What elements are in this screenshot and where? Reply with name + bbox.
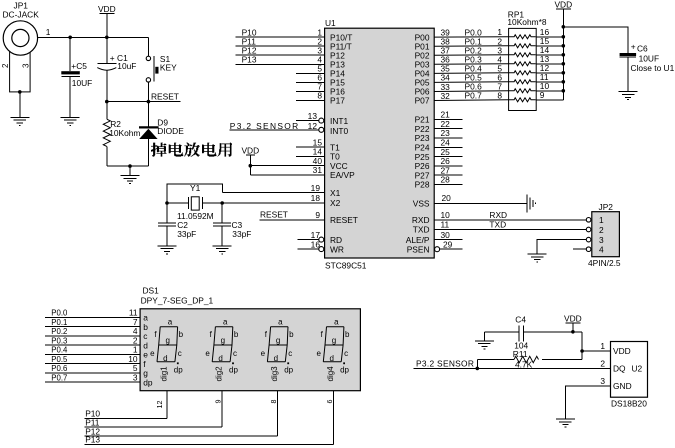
pin 24 P24 of U1 bbox=[415, 138, 463, 153]
svg-text:30: 30 bbox=[441, 230, 451, 240]
svg-text:Y1: Y1 bbox=[190, 183, 201, 193]
svg-text:16: 16 bbox=[311, 239, 321, 249]
svg-text:8: 8 bbox=[497, 90, 502, 100]
svg-text:C6: C6 bbox=[637, 44, 648, 54]
svg-text:WR: WR bbox=[330, 244, 344, 254]
crystal Y1 11.0592M bbox=[167, 183, 222, 221]
pin 21 P21 of U1 bbox=[415, 110, 463, 125]
RP1 right pin 12 wire bbox=[536, 63, 563, 73]
svg-text:U1: U1 bbox=[325, 18, 336, 28]
svg-text:c: c bbox=[344, 349, 348, 358]
pin 25 P25 of U1 bbox=[415, 147, 463, 162]
svg-text:P0.7: P0.7 bbox=[51, 373, 67, 382]
svg-text:VDD: VDD bbox=[613, 346, 631, 356]
power ground at VSS (rotated) bbox=[527, 194, 535, 212]
svg-text:4: 4 bbox=[599, 245, 604, 255]
ground under C5 bbox=[61, 117, 80, 125]
display pin 1 segment e, net P0.4 bbox=[45, 345, 148, 360]
node P3.2_SENSOR bbox=[416, 359, 474, 369]
svg-text:e: e bbox=[261, 349, 266, 358]
wire X1 loop bbox=[167, 184, 223, 203]
pin 33 P06 of U1, net P0.6 bbox=[415, 81, 509, 96]
junction RP1 bus bbox=[562, 44, 566, 48]
svg-text:P0.3: P0.3 bbox=[51, 336, 67, 345]
svg-text:17: 17 bbox=[311, 230, 321, 240]
pin 35 P04 of U1, net P0.4 bbox=[415, 63, 509, 78]
junction C5 / top rail bbox=[68, 36, 72, 40]
svg-text:8: 8 bbox=[317, 91, 322, 101]
svg-text:9: 9 bbox=[214, 400, 223, 404]
svg-text:VSS: VSS bbox=[413, 199, 430, 209]
wire P3.2_SENSOR to DQ bbox=[414, 367, 611, 369]
capacitor C5 10UF bbox=[61, 37, 92, 117]
wire VDD to C6 bbox=[563, 27, 628, 53]
svg-text:18: 18 bbox=[311, 193, 321, 203]
junction VCC/EA bbox=[249, 164, 253, 168]
svg-text:10: 10 bbox=[441, 210, 451, 220]
pin 18 X2 label of U1 bbox=[311, 193, 341, 208]
junction RP1 bus bbox=[562, 62, 566, 66]
junction VDD / C1 bbox=[105, 36, 109, 40]
svg-text:c: c bbox=[288, 349, 292, 358]
svg-text:33pF: 33pF bbox=[177, 229, 196, 239]
pin 4 P13 of U1 bbox=[235, 55, 345, 70]
svg-text:g: g bbox=[332, 336, 336, 345]
VDD bus right of RP1 bbox=[562, 27, 564, 100]
svg-text:2: 2 bbox=[600, 359, 605, 369]
svg-text:dp: dp bbox=[340, 365, 349, 374]
svg-text:11: 11 bbox=[441, 220, 450, 230]
svg-text:P07: P07 bbox=[415, 96, 430, 106]
pin 6 P15 of U1 bbox=[296, 73, 345, 88]
junction Y1 right / C3 bbox=[220, 201, 224, 205]
display pin 8 dig3 wire, net P12 bbox=[84, 391, 277, 437]
svg-text:P0.2: P0.2 bbox=[51, 327, 67, 336]
connector JP2 4PIN/2.5 bbox=[586, 202, 621, 268]
svg-text:dp: dp bbox=[174, 365, 183, 374]
svg-text:2: 2 bbox=[599, 225, 604, 235]
svg-text:3: 3 bbox=[599, 235, 604, 245]
svg-text:+: + bbox=[631, 42, 636, 52]
pin 16 WR of U1 bbox=[298, 239, 344, 254]
pin 13 INT1 of U1 bbox=[296, 111, 348, 126]
pin 3 P12 of U1 bbox=[235, 45, 345, 60]
svg-text:9: 9 bbox=[315, 210, 320, 220]
7-segment glyph dig2 bbox=[205, 318, 239, 382]
pin 39 P00 of U1, net P0.0 bbox=[415, 27, 509, 42]
svg-text:DS1: DS1 bbox=[143, 286, 160, 296]
RP1 right pin 10 wire bbox=[536, 81, 563, 91]
pin 26 P26 of U1 bbox=[415, 156, 463, 171]
wire R11 left leg down bbox=[476, 360, 478, 369]
svg-text:dig3: dig3 bbox=[270, 366, 279, 382]
svg-text:dig2: dig2 bbox=[215, 366, 224, 382]
wire U2 GND to ground bbox=[565, 386, 610, 419]
wire down to pin1 row / R11 bbox=[581, 332, 583, 360]
wire RESET net bbox=[107, 101, 181, 103]
pin 17 RD of U1 bbox=[298, 230, 343, 245]
display pin 5 segment g, net P0.6 bbox=[45, 363, 148, 378]
pin 9 RESET of U1 bbox=[315, 210, 358, 225]
svg-text:ALE/P: ALE/P bbox=[406, 235, 430, 245]
junction RESET / C1-R2 bbox=[105, 100, 109, 104]
wire VDD to U2 pin1 bbox=[582, 350, 610, 352]
svg-text:DC-JACK: DC-JACK bbox=[3, 10, 40, 20]
7-segment glyph dig3 bbox=[261, 318, 295, 382]
junction RP1 bus bbox=[562, 71, 566, 75]
svg-text:4PIN/2.5: 4PIN/2.5 bbox=[588, 258, 621, 268]
pin 29 PSEN of U1 bbox=[407, 239, 463, 254]
RP1 right pin 9 wire bbox=[536, 90, 563, 100]
pin 38 P01 of U1, net P0.1 bbox=[415, 36, 509, 51]
svg-text:VDD: VDD bbox=[564, 313, 582, 323]
svg-text:13: 13 bbox=[308, 111, 318, 121]
capacitor C3 33pF bbox=[213, 203, 251, 246]
svg-text:10uF: 10uF bbox=[117, 61, 136, 71]
svg-text:KEY: KEY bbox=[160, 63, 177, 73]
svg-text:P28: P28 bbox=[415, 180, 430, 190]
junction RP1 bus bbox=[562, 53, 566, 57]
connector JP1 DC-JACK bbox=[1, 1, 39, 92]
RP1 right pin 11 wire bbox=[536, 72, 563, 82]
svg-text:VDD: VDD bbox=[554, 0, 572, 9]
svg-text:e: e bbox=[150, 349, 155, 358]
junction jack bottom bbox=[18, 90, 22, 94]
pin 10 RXD of U1 bbox=[412, 210, 586, 225]
svg-text:+C5: +C5 bbox=[71, 61, 87, 71]
resistor R11 4.7K bbox=[477, 349, 582, 369]
pin 14 T0 of U1 bbox=[296, 147, 340, 162]
svg-text:1: 1 bbox=[599, 215, 604, 225]
pin 2 P11/T of U1 bbox=[235, 36, 351, 51]
7-segment glyph dig1 bbox=[150, 318, 184, 382]
display pin 2 segment d, net P0.3 bbox=[45, 335, 148, 350]
wire to X1 pin 19 bbox=[223, 192, 325, 194]
junction VDD / C4 row bbox=[571, 330, 575, 334]
svg-text:Close to U1: Close to U1 bbox=[631, 63, 675, 73]
svg-text:VDD: VDD bbox=[98, 4, 116, 14]
svg-text:P0.4: P0.4 bbox=[51, 346, 68, 355]
wire jack pin1 to VDD rail / S1 bbox=[38, 36, 149, 38]
svg-text:a: a bbox=[223, 318, 228, 327]
wire jack to ground bbox=[19, 92, 21, 117]
pin 15 T1 of U1 bbox=[296, 137, 340, 152]
svg-text:1: 1 bbox=[46, 27, 51, 37]
ground at C4 bbox=[475, 341, 494, 349]
svg-text:dig1: dig1 bbox=[160, 366, 169, 382]
svg-text:g: g bbox=[276, 336, 280, 345]
wire to X2 pin 18 bbox=[222, 202, 324, 204]
svg-text:VDD: VDD bbox=[241, 146, 259, 156]
pin 8 P17 of U1 bbox=[296, 91, 345, 106]
svg-text:X2: X2 bbox=[330, 198, 341, 208]
svg-text:DPY_7-SEG_DP_1: DPY_7-SEG_DP_1 bbox=[141, 296, 214, 306]
svg-text:EA/VP: EA/VP bbox=[330, 170, 355, 180]
svg-text:e: e bbox=[316, 349, 321, 358]
svg-text:JP2: JP2 bbox=[599, 202, 614, 212]
svg-text:RD: RD bbox=[330, 235, 342, 245]
svg-text:e: e bbox=[205, 349, 210, 358]
svg-text:U2: U2 bbox=[632, 364, 643, 374]
junction RP1 bus bbox=[562, 35, 566, 39]
svg-text:b: b bbox=[179, 330, 184, 339]
svg-text:RESET: RESET bbox=[260, 210, 288, 220]
junction bottom ground tap bbox=[128, 164, 132, 168]
ground at JP2 pin3 bbox=[528, 254, 547, 262]
svg-text:P17: P17 bbox=[330, 96, 345, 106]
pin 20 VSS of U1 bbox=[413, 193, 527, 209]
junction RP1 bus bbox=[562, 80, 566, 84]
pin 5 P14 of U1 bbox=[296, 64, 345, 79]
svg-text:DQ: DQ bbox=[613, 364, 626, 374]
pin 12 INT0 of U1, net P3.2 SENSOR bbox=[229, 121, 348, 136]
svg-text:8: 8 bbox=[269, 400, 278, 404]
svg-text:P0.5: P0.5 bbox=[51, 355, 68, 364]
svg-text:PSEN: PSEN bbox=[407, 244, 430, 254]
svg-text:3: 3 bbox=[600, 376, 605, 386]
wire VDD stem U2 bbox=[572, 323, 574, 332]
wire VDD stem bbox=[562, 9, 564, 27]
display DS1 DPY_7-SEG_DP_1 body bbox=[140, 286, 360, 391]
svg-text:3: 3 bbox=[22, 63, 31, 68]
pin 32 P07 of U1, net P0.7 bbox=[415, 90, 509, 105]
pin 27 P27 of U1 bbox=[415, 165, 463, 180]
wire VDD to rail bbox=[106, 14, 108, 38]
wire JP2 pin3 to ground bbox=[537, 240, 586, 254]
VDD power symbol top-left bbox=[98, 4, 116, 14]
svg-text:9: 9 bbox=[540, 90, 545, 100]
pin 37 P02 of U1, net P0.2 bbox=[415, 45, 509, 60]
resistor pack RP1 10Kohm*8 bbox=[507, 10, 546, 111]
svg-text:19: 19 bbox=[311, 183, 321, 193]
op-amp U1 STC89C51 body bbox=[325, 18, 435, 271]
display pin 7 segment b, net P0.1 bbox=[45, 317, 148, 332]
ground under C3 bbox=[213, 246, 232, 254]
VDD power symbol top-right bbox=[554, 0, 572, 9]
capacitor C6 10UF bbox=[620, 42, 675, 92]
pin 34 P05 of U1, net P0.5 bbox=[415, 72, 509, 87]
display pin 10 segment f, net P0.5 bbox=[45, 354, 146, 369]
wire to ground bbox=[129, 166, 131, 175]
switch S1 KEY bbox=[146, 37, 177, 101]
svg-text:33pF: 33pF bbox=[232, 229, 251, 239]
svg-text:10Kohm: 10Kohm bbox=[109, 128, 140, 138]
svg-text:P0.7: P0.7 bbox=[465, 91, 483, 101]
ground at U2 bbox=[556, 419, 575, 427]
svg-text:P13: P13 bbox=[85, 435, 100, 445]
sensor U2 DS18B20 body bbox=[600, 341, 647, 408]
svg-text:P0.0: P0.0 bbox=[51, 309, 68, 318]
svg-text:TXD: TXD bbox=[413, 225, 430, 235]
svg-text:g: g bbox=[221, 336, 225, 345]
svg-text:DS18B20: DS18B20 bbox=[611, 399, 647, 409]
capacitor C1 10uF bbox=[97, 37, 136, 101]
svg-text:X1: X1 bbox=[330, 188, 341, 198]
7-segment glyph dig4 bbox=[316, 318, 350, 382]
svg-text:32: 32 bbox=[441, 91, 451, 101]
svg-text:31: 31 bbox=[313, 165, 323, 175]
svg-text:RXD: RXD bbox=[489, 210, 507, 220]
RP1 right pin 14 wire bbox=[536, 45, 563, 55]
svg-text:d: d bbox=[329, 354, 333, 363]
note text 掉电放电用 (vectorized) bbox=[151, 143, 232, 157]
svg-text:g: g bbox=[165, 336, 169, 345]
svg-text:TXD: TXD bbox=[489, 220, 506, 230]
svg-text:4.7K: 4.7K bbox=[515, 359, 533, 369]
pin 23 P23 of U1 bbox=[415, 128, 463, 143]
pin 7 P16 of U1 bbox=[296, 82, 345, 97]
svg-text:c: c bbox=[233, 349, 237, 358]
wire VDD to VCC/EA bbox=[249, 155, 251, 175]
capacitor C4 104 bbox=[484, 315, 582, 351]
capacitor C2 33pF bbox=[158, 203, 196, 246]
svg-text:dp: dp bbox=[229, 365, 238, 374]
svg-text:1: 1 bbox=[600, 341, 605, 351]
display pin 3 segment dp, net P0.7 bbox=[45, 372, 153, 387]
svg-text:P0.6: P0.6 bbox=[51, 364, 67, 373]
wire RESET to pin 9 bbox=[260, 219, 325, 221]
svg-text:P0.1: P0.1 bbox=[51, 318, 67, 327]
wire R2/D9 bottom bbox=[107, 165, 149, 167]
svg-text:STC89C51: STC89C51 bbox=[325, 261, 367, 271]
pin 28 P28 of U1 bbox=[415, 175, 463, 190]
pin 40 VCC of U1 bbox=[250, 156, 347, 171]
svg-text:INT0: INT0 bbox=[330, 126, 348, 136]
svg-text:DIODE: DIODE bbox=[157, 126, 184, 136]
svg-text:GND: GND bbox=[613, 381, 632, 391]
svg-text:d: d bbox=[274, 354, 278, 363]
pin 36 P03 of U1, net P0.3 bbox=[415, 54, 509, 69]
VDD power symbol at U2 bbox=[564, 313, 582, 323]
display pin 12 dig1 wire, net P10 bbox=[84, 391, 167, 419]
svg-text:P13: P13 bbox=[242, 55, 257, 65]
svg-text:P3.2 SENSOR: P3.2 SENSOR bbox=[416, 359, 474, 369]
svg-text:20: 20 bbox=[442, 193, 452, 203]
svg-text:INT1: INT1 bbox=[330, 116, 348, 126]
svg-text:b: b bbox=[234, 330, 239, 339]
svg-text:12: 12 bbox=[308, 121, 318, 131]
svg-text:6: 6 bbox=[325, 400, 334, 404]
wire JP2 pin4 stub bbox=[573, 248, 587, 250]
pin 19 X1 label of U1 bbox=[311, 183, 341, 198]
RP1 right pin 13 wire bbox=[536, 54, 563, 64]
display pin 6 dig4 wire, net P13 bbox=[84, 391, 333, 445]
pin 30 ALE/P of U1 bbox=[406, 230, 463, 245]
svg-text:dp: dp bbox=[284, 365, 293, 374]
RP1 right pin 16 wire bbox=[536, 27, 563, 37]
svg-text:10UF: 10UF bbox=[72, 78, 92, 88]
diode D9 bbox=[139, 102, 184, 167]
svg-text:b: b bbox=[289, 330, 294, 339]
resistor R2 10Kohm bbox=[103, 102, 140, 167]
svg-text:10Kohm*8: 10Kohm*8 bbox=[507, 17, 546, 27]
svg-text:d: d bbox=[163, 354, 167, 363]
svg-text:10UF: 10UF bbox=[639, 53, 659, 63]
pin 31 EA/VP of U1 bbox=[250, 165, 355, 180]
svg-text:a: a bbox=[278, 318, 283, 327]
svg-text:RESET: RESET bbox=[151, 92, 179, 102]
svg-text:a: a bbox=[168, 318, 173, 327]
svg-text:c: c bbox=[178, 349, 182, 358]
display pin 11 segment a, net P0.0 bbox=[45, 308, 148, 323]
svg-text:28: 28 bbox=[441, 175, 451, 185]
wire C4 left to ground bbox=[483, 332, 485, 341]
ground under JP1 bbox=[10, 117, 29, 125]
junction pin1 / R11 branch bbox=[580, 349, 584, 353]
ground under C2 bbox=[158, 246, 177, 254]
svg-text:dp: dp bbox=[143, 377, 153, 387]
svg-text:C4: C4 bbox=[515, 315, 526, 325]
VDD power symbol at U1 VCC bbox=[241, 146, 259, 156]
svg-text:d: d bbox=[218, 354, 222, 363]
svg-text:a: a bbox=[334, 318, 339, 327]
svg-text:29: 29 bbox=[443, 239, 453, 249]
pin 22 P22 of U1 bbox=[415, 119, 463, 134]
junction R11 / SENSOR net bbox=[476, 367, 480, 371]
junction VDD / C6 branch bbox=[562, 25, 566, 29]
svg-text:dig4: dig4 bbox=[326, 366, 335, 382]
pin 11 TXD of U1 bbox=[413, 220, 587, 235]
display pin 4 segment c, net P0.2 bbox=[45, 326, 147, 341]
display pin 9 dig2 wire, net P11 bbox=[84, 391, 222, 428]
svg-text:2: 2 bbox=[1, 63, 10, 68]
svg-text:3: 3 bbox=[133, 372, 138, 382]
svg-text:RESET: RESET bbox=[330, 215, 358, 225]
svg-text:b: b bbox=[345, 330, 350, 339]
svg-text:12: 12 bbox=[155, 401, 164, 409]
junction RESET / S1-D9 bbox=[147, 100, 151, 104]
RP1 right pin 15 wire bbox=[536, 36, 563, 46]
junction RP1 bus bbox=[562, 89, 566, 93]
svg-text:RXD: RXD bbox=[412, 215, 430, 225]
ground under R2/D9 bbox=[121, 176, 140, 184]
ground under C6 bbox=[619, 92, 638, 100]
junction Y1 left / C2 bbox=[165, 201, 169, 205]
pin 1 P10/T of U1 bbox=[235, 27, 352, 42]
